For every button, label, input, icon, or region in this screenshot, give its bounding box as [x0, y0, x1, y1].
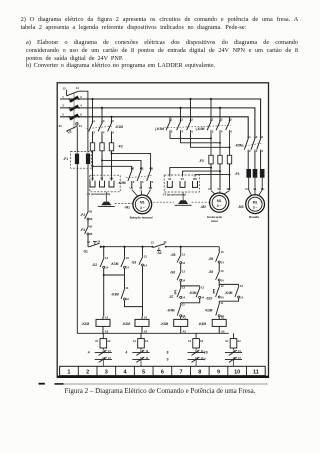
- svg-text:1: 1: [171, 118, 173, 122]
- wire rejoin rung5: [219, 298, 238, 301]
- svg-text:-Q1: -Q1: [66, 130, 72, 134]
- dashed box F1: [71, 151, 92, 168]
- start button S2: [100, 256, 109, 270]
- svg-text:13: 13: [126, 256, 129, 260]
- svg-text:Rotação manual: Rotação manual: [129, 216, 152, 220]
- button S8: [216, 250, 225, 264]
- svg-text:11: 11: [220, 301, 223, 305]
- wire drop to K1M pole 2: [101, 108, 103, 121]
- wire tap to Y2 b: [183, 171, 221, 177]
- svg-text:mesa: mesa: [211, 219, 218, 223]
- wire: [142, 247, 144, 255]
- interlock K4M NC (rung4): [177, 302, 185, 318]
- junction: [103, 246, 105, 248]
- svg-text:14: 14: [221, 260, 224, 264]
- svg-text:5: 5: [230, 118, 232, 122]
- svg-text:A1: A1: [225, 340, 229, 343]
- svg-text:3: 3: [103, 119, 105, 123]
- svg-text:3 ~: 3 ~: [253, 206, 258, 210]
- svg-text:U1: U1: [208, 187, 212, 191]
- svg-text:-K5M: -K5M: [235, 144, 243, 148]
- wire Q1 aux 24 to F1: [76, 127, 78, 152]
- svg-text:A2: A2: [200, 340, 204, 343]
- junction: [229, 146, 231, 148]
- svg-text:W1: W1: [261, 188, 265, 191]
- svg-text:V1: V1: [217, 187, 221, 191]
- svg-text:V1: V1: [253, 188, 257, 191]
- svg-text:2: 2: [86, 370, 89, 376]
- wire drops to K4M: [211, 99, 230, 120]
- fuse F1b: [86, 154, 90, 165]
- junction: [91, 98, 93, 100]
- wire: [218, 263, 220, 269]
- wire split rung4: [181, 281, 200, 286]
- brake symbol Y1: [98, 192, 115, 207]
- button S5: [177, 253, 186, 265]
- overload relay F2: [90, 133, 113, 176]
- svg-text:-S3: -S3: [131, 260, 136, 264]
- svg-text:-S1: -S1: [83, 249, 88, 253]
- svg-text:6: 6: [191, 129, 193, 133]
- contactor K2M power contacts: [126, 167, 154, 189]
- coil K3M: [160, 315, 187, 333]
- contactor K5M power contacts: [242, 135, 263, 153]
- wire tap to Y2 a: [170, 168, 211, 177]
- svg-text:A1: A1: [105, 315, 109, 319]
- wire tap to K2M pole 2: [102, 160, 141, 168]
- svg-text:-K3M: -K3M: [205, 308, 213, 312]
- svg-text:23: 23: [59, 124, 62, 128]
- dashed box clutch Y2: [164, 175, 199, 192]
- svg-text:-M3: -M3: [238, 205, 244, 209]
- disconnect switch Q1 poles: [62, 95, 82, 120]
- svg-text:4: 4: [126, 351, 128, 355]
- junction: [141, 246, 143, 248]
- svg-text:-F3: -F3: [80, 228, 85, 232]
- wire tap to K2M pole 1: [112, 153, 151, 168]
- overload relay F3: [209, 155, 232, 190]
- svg-text:-F2: -F2: [80, 213, 85, 217]
- svg-text:14: 14: [163, 240, 166, 244]
- svg-text:3: 3: [181, 118, 183, 122]
- coil K4M: [198, 315, 226, 333]
- svg-text:A1: A1: [144, 315, 148, 319]
- wire: [142, 266, 144, 317]
- motor M3: [246, 195, 265, 214]
- wire: [103, 247, 105, 257]
- svg-text:A2: A2: [183, 329, 187, 333]
- svg-text:-S8: -S8: [208, 257, 213, 261]
- svg-text:A2: A2: [105, 329, 109, 333]
- schematic border frame: [57, 83, 269, 377]
- limit switch S7: [175, 286, 186, 300]
- svg-text:-K3M: -K3M: [189, 291, 197, 295]
- coil K2M: [122, 315, 149, 333]
- svg-text:14: 14: [182, 296, 185, 300]
- svg-text:6: 6: [152, 180, 154, 184]
- junction: [229, 174, 231, 176]
- svg-text:Bomba: Bomba: [248, 215, 259, 219]
- wire L2 rail: [60, 108, 255, 137]
- contactor K1M power contacts: [87, 119, 115, 134]
- svg-text:14: 14: [105, 266, 108, 270]
- pendant switch group 2: [126, 333, 150, 366]
- junction: [210, 98, 212, 100]
- svg-text:A2: A2: [145, 340, 149, 343]
- svg-text:14: 14: [182, 279, 185, 283]
- junction: [219, 170, 221, 172]
- svg-text:-S7: -S7: [169, 295, 174, 299]
- interlock K3M NC (rung2): [121, 286, 129, 301]
- junction: [123, 246, 125, 248]
- labels U2 V2 W2 (Y1): [91, 177, 114, 181]
- svg-text:1: 1: [93, 119, 95, 123]
- svg-text:3: 3: [62, 104, 64, 108]
- svg-text:13: 13: [240, 284, 243, 288]
- svg-text:14: 14: [76, 86, 79, 90]
- wire L3 rail: [60, 117, 248, 137]
- svg-text:96: 96: [89, 232, 92, 236]
- svg-text:-K1M: -K1M: [115, 125, 123, 129]
- svg-text:-K2M: -K2M: [118, 181, 126, 185]
- svg-text:1: 1: [249, 135, 251, 139]
- pendant switch group 4: [204, 333, 242, 366]
- svg-text:14: 14: [221, 278, 224, 282]
- svg-text:W2: W2: [110, 177, 114, 181]
- svg-text:13: 13: [221, 269, 224, 273]
- svg-text:-K2M: -K2M: [122, 322, 130, 326]
- overload contact F2 95-96: [85, 209, 93, 221]
- svg-text:14: 14: [221, 295, 224, 299]
- wire: [103, 268, 105, 316]
- svg-text:A2: A2: [144, 329, 148, 333]
- contactor K3M power contacts: [166, 118, 193, 134]
- svg-text:-K3M: -K3M: [111, 292, 119, 296]
- svg-text:1: 1: [67, 370, 70, 376]
- svg-text:4: 4: [123, 370, 127, 376]
- junction: [103, 274, 105, 276]
- limit switch S10: [213, 284, 224, 299]
- wire L1 rail: [60, 99, 261, 137]
- svg-text:14: 14: [182, 261, 185, 265]
- wire M2 leads: [211, 191, 230, 195]
- svg-text:13: 13: [182, 253, 185, 257]
- svg-text:24: 24: [79, 124, 82, 128]
- svg-text:13: 13: [105, 256, 108, 260]
- wire cross link 3: [191, 131, 230, 147]
- svg-text:A1: A1: [183, 315, 187, 319]
- svg-text:5: 5: [112, 119, 114, 123]
- brake symbol Y2: [175, 192, 192, 205]
- scan shadow under frame: [39, 383, 269, 385]
- svg-text:9: 9: [217, 370, 220, 376]
- svg-text:13: 13: [151, 240, 154, 244]
- terminal strip 1-11: [60, 366, 266, 375]
- svg-text:14: 14: [126, 266, 129, 270]
- svg-text:4: 4: [80, 104, 82, 108]
- pendant switch group 1: [88, 333, 112, 366]
- svg-text:2: 2: [93, 131, 95, 135]
- svg-text:4: 4: [103, 131, 105, 135]
- svg-text:-M1: -M1: [124, 205, 130, 209]
- wire F4 to M3: [249, 178, 263, 196]
- wire: [124, 247, 126, 257]
- motor M1: [133, 195, 152, 214]
- svg-text:-F3: -F3: [199, 159, 204, 163]
- svg-text:-K1M: -K1M: [111, 262, 119, 266]
- wire M1 leads: [132, 190, 151, 197]
- labels U1 V1 W1 (M3): [245, 188, 265, 191]
- svg-text:11: 11: [126, 286, 129, 290]
- junction: [180, 246, 182, 248]
- button S6: [177, 269, 186, 282]
- svg-text:96: 96: [89, 217, 92, 221]
- wire tap to K2M pole 3: [93, 166, 132, 168]
- svg-text:M1: M1: [140, 201, 145, 205]
- svg-text:13: 13: [221, 284, 224, 288]
- overload contact F3 95-96: [85, 224, 93, 236]
- switch Q1 aux contact 13-14: [63, 86, 80, 96]
- svg-text:10: 10: [204, 351, 208, 355]
- wire rejoin rung4: [181, 298, 200, 302]
- svg-text:13: 13: [144, 255, 147, 259]
- junction: [219, 107, 221, 109]
- svg-text:3: 3: [221, 118, 223, 122]
- svg-text:V2: V2: [181, 177, 185, 181]
- svg-text:4: 4: [181, 129, 183, 133]
- wire K4M outputs: [211, 131, 230, 155]
- svg-text:3 ~: 3 ~: [217, 204, 222, 208]
- svg-text:-K1M: -K1M: [81, 322, 89, 326]
- svg-text:13: 13: [63, 86, 66, 90]
- svg-text:3: 3: [256, 135, 258, 139]
- wire: [87, 220, 89, 225]
- fuse F1a: [75, 154, 79, 165]
- button S3: [139, 255, 148, 268]
- clutch Y1 terminals: [90, 176, 114, 187]
- wire Q1 aux 14 to F1: [79, 91, 88, 152]
- svg-text:U2: U2: [168, 177, 172, 181]
- svg-text:7: 7: [180, 370, 183, 376]
- svg-text:-F1: -F1: [63, 157, 68, 161]
- svg-text:A2: A2: [221, 329, 225, 333]
- svg-text:4: 4: [221, 129, 223, 133]
- wire cross link 1: [170, 131, 211, 138]
- svg-text:-F4: -F4: [235, 172, 240, 176]
- svg-text:11: 11: [253, 370, 259, 376]
- wire: [124, 268, 126, 286]
- svg-text:A1: A1: [95, 340, 99, 343]
- labels U1 V1 W1 (M2): [208, 187, 231, 191]
- button S9: [216, 269, 225, 282]
- svg-text:13: 13: [201, 286, 204, 290]
- wire drops to K3M: [170, 99, 191, 120]
- svg-text:-S5: -S5: [170, 253, 175, 257]
- svg-text:1: 1: [133, 167, 135, 171]
- svg-text:-S10: -S10: [206, 297, 213, 301]
- wire: [180, 264, 182, 270]
- svg-text:A1: A1: [133, 340, 137, 343]
- junction: [110, 116, 112, 118]
- svg-text:(-K3M: (-K3M: [155, 127, 164, 131]
- svg-text:5: 5: [152, 167, 154, 171]
- wire control supply: [87, 164, 89, 210]
- switch Q1 aux contact 23-24: [59, 123, 83, 131]
- aux contact K1M 13-14: [121, 256, 130, 270]
- aux contact K3M 13-14: [196, 286, 205, 300]
- svg-text:(-K4M: (-K4M: [196, 127, 205, 131]
- svg-text:A1: A1: [221, 315, 225, 319]
- svg-text:3: 3: [105, 370, 108, 376]
- svg-text:-S9: -S9: [208, 270, 213, 274]
- svg-text:A1: A1: [188, 340, 192, 343]
- switch Q1 linkage: [73, 94, 75, 129]
- svg-text:6: 6: [80, 113, 82, 117]
- svg-text:W2: W2: [193, 177, 197, 181]
- dashed box clutch Y1: [90, 175, 120, 192]
- mech link Y2 to M2: [150, 201, 209, 203]
- svg-text:7: 7: [204, 357, 206, 361]
- svg-text:-K3M: -K3M: [160, 322, 168, 326]
- svg-text:13: 13: [182, 269, 185, 273]
- svg-text:-S2: -S2: [92, 263, 97, 267]
- svg-text:1: 1: [212, 118, 214, 122]
- wire control return rail: [77, 164, 229, 333]
- svg-text:-K4M: -K4M: [167, 308, 175, 312]
- wire drop to K1M pole 3: [111, 117, 113, 121]
- wire: [125, 300, 143, 307]
- wire control bus: [101, 246, 219, 248]
- svg-text:-S6: -S6: [170, 271, 175, 275]
- svg-text:11: 11: [182, 302, 185, 306]
- svg-text:3: 3: [142, 167, 144, 171]
- wire: [87, 235, 89, 247]
- wire K5M to F4: [248, 151, 260, 169]
- junction: [111, 152, 113, 154]
- stop button S1: [87, 240, 101, 247]
- svg-text:5: 5: [142, 370, 145, 376]
- wire: [180, 247, 182, 253]
- svg-text:5: 5: [191, 118, 193, 122]
- svg-text:Deslocação: Deslocação: [206, 215, 222, 219]
- svg-text:A2: A2: [107, 340, 111, 343]
- svg-text:12: 12: [126, 297, 129, 301]
- caption Deslocacao mesa: [206, 215, 222, 223]
- aux contact K4M 13-14: [235, 284, 244, 299]
- svg-text:-K4M: -K4M: [198, 322, 206, 326]
- wire bus end down: [218, 247, 220, 251]
- svg-text:6: 6: [112, 131, 114, 135]
- svg-text:1: 1: [62, 95, 64, 99]
- svg-text:13: 13: [182, 286, 185, 290]
- wire link rung1-rung2: [104, 274, 125, 276]
- labels U2 V2 W2 (Y2): [168, 177, 198, 181]
- svg-text:5: 5: [262, 135, 264, 139]
- wire cross link 2: [181, 131, 221, 142]
- svg-text:A2: A2: [237, 340, 241, 343]
- junction: [101, 159, 103, 161]
- motor M2: [210, 193, 229, 212]
- junction: [210, 137, 212, 139]
- svg-text:4: 4: [88, 351, 90, 355]
- svg-text:2: 2: [171, 129, 173, 133]
- svg-text:14: 14: [144, 263, 147, 267]
- coil K1M: [81, 315, 110, 333]
- junction: [101, 107, 103, 109]
- svg-text:95: 95: [89, 209, 92, 213]
- junction: [100, 246, 102, 248]
- junction: [210, 167, 212, 169]
- svg-text:13: 13: [87, 240, 90, 244]
- svg-text:-M2: -M2: [200, 205, 206, 209]
- svg-text:14: 14: [240, 295, 243, 299]
- svg-text:U2: U2: [91, 177, 95, 181]
- svg-text:-Y2 (acoplamento): -Y2 (acoplamento): [162, 192, 186, 196]
- svg-text:5: 5: [62, 113, 64, 117]
- svg-text:-F2: -F2: [118, 145, 123, 149]
- svg-text:-K4M: -K4M: [225, 291, 233, 295]
- svg-text:8: 8: [198, 370, 201, 376]
- svg-text:W1: W1: [149, 186, 153, 190]
- svg-text:-Y1 (acionamento): -Y1 (acionamento): [86, 192, 110, 196]
- svg-text:9: 9: [167, 357, 169, 361]
- svg-text:M1: M1: [253, 200, 258, 204]
- svg-text:V2: V2: [100, 177, 104, 181]
- svg-text:2: 2: [212, 129, 214, 133]
- pendant switch group 3: [167, 333, 205, 366]
- interlock K3M NC (rung5): [216, 301, 224, 318]
- svg-text:14: 14: [97, 240, 100, 244]
- junction: [219, 142, 221, 144]
- mech link Y1 to M1: [115, 202, 133, 204]
- svg-text:6: 6: [230, 129, 232, 133]
- wire split rung5: [219, 281, 238, 284]
- button S4 inline: [151, 240, 167, 250]
- junction: [92, 165, 94, 167]
- svg-text:-S4: -S4: [157, 251, 162, 255]
- svg-text:4: 4: [142, 180, 144, 184]
- svg-text:14: 14: [201, 296, 204, 300]
- junction: [179, 107, 181, 109]
- svg-text:6: 6: [161, 370, 164, 376]
- junction: [189, 98, 191, 100]
- svg-text:6: 6: [262, 149, 264, 153]
- svg-text:M1: M1: [217, 199, 222, 203]
- svg-text:13: 13: [221, 250, 224, 254]
- labels U1 V1 W1 (M1): [130, 186, 153, 190]
- svg-text:10: 10: [234, 370, 240, 376]
- wire tap to Y2 c: [195, 175, 230, 177]
- svg-text:2: 2: [133, 180, 135, 184]
- clutch Y2 terminals: [167, 181, 197, 187]
- svg-text:3 ~: 3 ~: [140, 206, 145, 210]
- wire drop to K1M pole 1: [92, 99, 94, 121]
- svg-text:95: 95: [89, 224, 92, 228]
- svg-text:8: 8: [167, 351, 169, 355]
- svg-text:U1: U1: [130, 186, 134, 190]
- fuses F4: [246, 169, 264, 178]
- contactor K4M power contacts: [165, 118, 233, 134]
- svg-text:2: 2: [80, 95, 82, 99]
